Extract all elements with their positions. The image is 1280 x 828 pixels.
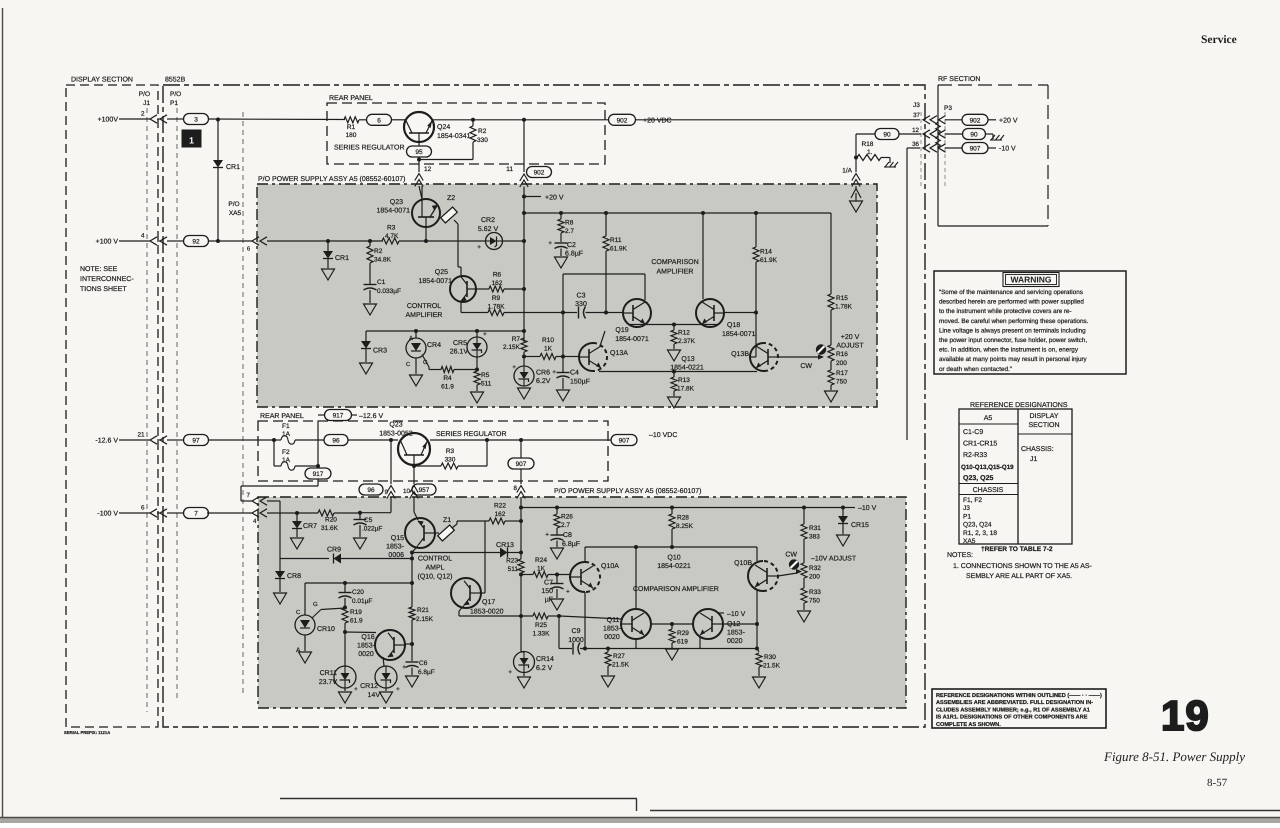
svg-text:Q15: Q15 bbox=[391, 535, 404, 542]
connector oval 907 drop bbox=[508, 440, 534, 484]
svg-text:1.33K: 1.33K bbox=[533, 631, 551, 638]
svg-text:P/O: P/O bbox=[170, 91, 181, 98]
svg-text:CR1: CR1 bbox=[335, 255, 349, 262]
svg-text:902: 902 bbox=[970, 117, 981, 124]
pin 4 chevrons bbox=[252, 509, 297, 525]
main 8552B box bbox=[163, 77, 925, 728]
series regulator label lower bbox=[436, 431, 507, 438]
svg-text:C1-C9: C1-C9 bbox=[963, 429, 983, 436]
wire emitter row Q19 Q18 bbox=[630, 324, 717, 326]
transistor Q24 bbox=[404, 112, 471, 142]
svg-text:0.01µF: 0.01µF bbox=[352, 598, 372, 605]
diode CR1 A5 bbox=[322, 241, 350, 280]
junction R30 top bbox=[755, 647, 759, 651]
svg-text:–12.6 V: –12.6 V bbox=[359, 413, 383, 420]
svg-text:96: 96 bbox=[332, 438, 340, 445]
P3 pin squiggle 2 bbox=[936, 136, 941, 147]
resistor R3 330 chassis bbox=[414, 440, 487, 469]
svg-text:R4: R4 bbox=[443, 375, 452, 382]
svg-text:-10 V: -10 V bbox=[999, 146, 1016, 153]
svg-text:902: 902 bbox=[534, 170, 545, 177]
svg-text:C3: C3 bbox=[577, 293, 586, 300]
transistor Q19 bbox=[615, 299, 651, 343]
svg-text:162: 162 bbox=[495, 511, 506, 518]
svg-text:Q10A: Q10A bbox=[601, 563, 619, 570]
rear panel box lower bbox=[258, 413, 608, 481]
svg-text:R22: R22 bbox=[494, 503, 506, 510]
junction R2 top bbox=[471, 118, 475, 122]
resistor R10 1K bbox=[524, 337, 563, 360]
svg-text:R13: R13 bbox=[678, 377, 690, 384]
wire Q16 base bbox=[345, 631, 376, 634]
svg-text:SECTION: SECTION bbox=[1028, 422, 1059, 429]
transistor Q25 bbox=[419, 267, 476, 302]
junction Q18 collector rail bbox=[701, 211, 705, 215]
svg-text:11: 11 bbox=[506, 166, 513, 173]
transistor Q23 A5 bbox=[377, 186, 440, 227]
connector oval 902 rf bbox=[962, 114, 988, 125]
pin 9 connector bbox=[359, 484, 395, 513]
svg-text:Q11: Q11 bbox=[607, 617, 620, 624]
svg-text:31.6K: 31.6K bbox=[321, 525, 339, 532]
junction R18 bbox=[854, 156, 858, 160]
svg-text:P/O POWER SUPPLY ASSY A5 (0855: P/O POWER SUPPLY ASSY A5 (08552-60107) bbox=[258, 175, 405, 183]
svg-text:CR10: CR10 bbox=[317, 626, 335, 633]
svg-text:CR11: CR11 bbox=[320, 670, 337, 677]
junction R25 right bbox=[557, 614, 561, 618]
svg-text:180: 180 bbox=[346, 132, 357, 139]
svg-text:R10: R10 bbox=[542, 337, 554, 344]
foldout tab 19 bbox=[1161, 692, 1210, 739]
abbreviation note box bbox=[932, 689, 1106, 728]
node +20 VDC label bbox=[643, 118, 672, 125]
svg-text:12: 12 bbox=[912, 127, 919, 134]
control amplifier label upper bbox=[406, 303, 443, 319]
svg-text:8-57: 8-57 bbox=[1207, 777, 1228, 789]
svg-text:6: 6 bbox=[377, 117, 381, 124]
svg-text:2.7: 2.7 bbox=[565, 228, 574, 235]
svg-text:Q10B: Q10B bbox=[734, 560, 752, 567]
svg-text:907: 907 bbox=[516, 461, 527, 468]
svg-text:SEMBLY ARE ALL PART OF XA5.: SEMBLY ARE ALL PART OF XA5. bbox=[966, 573, 1072, 580]
resistor R11 61.9K bbox=[603, 213, 628, 313]
wire Z1 to R22 bbox=[435, 521, 489, 533]
svg-text:R2-R33: R2-R33 bbox=[963, 452, 987, 459]
wire CR2 to +20V vertical bbox=[503, 240, 525, 242]
svg-text:0020: 0020 bbox=[358, 651, 374, 658]
junction R26 top bbox=[555, 506, 559, 510]
serial prefix note bbox=[64, 730, 110, 735]
resistor R12 2.37K bbox=[668, 325, 696, 362]
svg-text:957: 957 bbox=[419, 487, 430, 494]
svg-text:CR1-CR15: CR1-CR15 bbox=[963, 441, 997, 448]
wire 917 riser bbox=[318, 415, 325, 466]
junction C20 top bbox=[343, 581, 347, 585]
svg-text:1853-0052: 1853-0052 bbox=[379, 431, 413, 438]
svg-text:CW: CW bbox=[785, 552, 797, 559]
svg-text:R28: R28 bbox=[677, 515, 689, 522]
svg-text:4: 4 bbox=[253, 518, 257, 525]
svg-text:J1: J1 bbox=[143, 100, 150, 107]
svg-text:330: 330 bbox=[445, 457, 456, 464]
svg-text:0.033µF: 0.033µF bbox=[377, 288, 401, 295]
svg-text:902: 902 bbox=[617, 117, 628, 124]
svg-text:17.8K: 17.8K bbox=[677, 386, 695, 393]
wire C9 branch bbox=[558, 616, 560, 649]
svg-text:0020: 0020 bbox=[727, 638, 743, 645]
figure caption bbox=[1103, 749, 1245, 764]
svg-text:P/O: P/O bbox=[228, 201, 239, 208]
svg-text:+: + bbox=[508, 669, 512, 676]
svg-text:REAR PANEL: REAR PANEL bbox=[260, 413, 304, 420]
wire -10VDC riser bbox=[907, 148, 920, 440]
resistor R33 750 bbox=[798, 588, 822, 622]
svg-text:14V: 14V bbox=[368, 692, 381, 699]
connector oval 90 rf bbox=[963, 129, 986, 140]
node +100V row2 label and pins bbox=[96, 233, 209, 247]
svg-text:REAR PANEL: REAR PANEL bbox=[329, 95, 373, 102]
junction -10V rail pin8 bbox=[519, 506, 523, 510]
svg-text:R1: R1 bbox=[347, 124, 356, 131]
zener CR12 bbox=[360, 657, 400, 703]
svg-text:CHASSIS: CHASSIS bbox=[973, 487, 1004, 494]
connector oval 907 rf bbox=[962, 143, 988, 154]
resistor R18 bbox=[857, 141, 890, 163]
wire pin9 drop bbox=[390, 440, 392, 484]
wire -100V row bbox=[207, 512, 252, 514]
svg-text:750: 750 bbox=[809, 598, 820, 605]
connector P1 dashed line bbox=[170, 91, 181, 700]
node +20V tag bbox=[522, 195, 564, 202]
svg-text:to the instrument while protec: to the instrument while protective cover… bbox=[939, 308, 1072, 315]
svg-text:ADJUST: ADJUST bbox=[836, 343, 864, 350]
svg-text:Z2: Z2 bbox=[447, 195, 455, 202]
diode CR15 bbox=[837, 508, 870, 547]
svg-text:C6: C6 bbox=[419, 660, 428, 667]
svg-text:P/O POWER SUPPLY ASSY A5 (0855: P/O POWER SUPPLY ASSY A5 (08552-60107) bbox=[554, 487, 701, 495]
svg-text:R16: R16 bbox=[836, 351, 848, 358]
wire oval90 to R18 bbox=[856, 134, 875, 158]
resistor R20 31.6K bbox=[297, 510, 360, 532]
svg-text:Q16: Q16 bbox=[361, 634, 374, 641]
wire +20V vertical upper bbox=[523, 196, 525, 342]
wire R23 to CR14 bbox=[520, 616, 522, 652]
fuse pin 1/A bbox=[842, 158, 860, 190]
wire -12.6V row bbox=[209, 439, 275, 441]
svg-text:23.7V: 23.7V bbox=[319, 679, 338, 686]
junction R28 bottom bbox=[670, 545, 674, 549]
junction Q10A emitter row bbox=[583, 647, 587, 651]
power supply assy A5 upper box bbox=[257, 175, 877, 407]
wire F1 to oval96 bbox=[295, 439, 324, 441]
svg-text:200: 200 bbox=[836, 360, 847, 367]
svg-text:REFERENCE DESIGNATIONS: REFERENCE DESIGNATIONS bbox=[970, 402, 1068, 409]
connector J1 dashed line bbox=[139, 91, 151, 712]
wire oval96 to Q23 base bbox=[348, 439, 398, 441]
page bottom border bbox=[0, 817, 1280, 819]
diode CR8 bbox=[274, 559, 302, 605]
svg-text:97: 97 bbox=[192, 438, 200, 445]
svg-text:CR13: CR13 bbox=[496, 542, 514, 549]
wire Q12 emitter bbox=[636, 637, 700, 649]
svg-text:61.9K: 61.9K bbox=[610, 246, 628, 253]
junction Q12 base wiper bbox=[755, 622, 759, 626]
junction F1 F2 bbox=[272, 438, 276, 442]
resistor R1 bbox=[344, 117, 367, 139]
svg-text:CONTROL: CONTROL bbox=[407, 303, 441, 310]
wire 917 to pin7 bbox=[241, 479, 318, 501]
svg-text:Q19: Q19 bbox=[615, 327, 628, 334]
svg-text:F2: F2 bbox=[282, 449, 290, 456]
wire F2 branch bbox=[273, 440, 275, 466]
svg-text:COMPARISON AMPLIFIER: COMPARISON AMPLIFIER bbox=[633, 586, 719, 593]
svg-text:CONTROL: CONTROL bbox=[418, 556, 452, 563]
resistor R2 34.8K bbox=[367, 241, 392, 284]
resistor R26 2.7 bbox=[554, 508, 573, 536]
wire F2 to 917 bbox=[295, 464, 320, 468]
junction R7 bottom bbox=[522, 355, 526, 367]
zener CR5 bbox=[450, 331, 487, 370]
svg-text:1853-: 1853- bbox=[357, 643, 376, 650]
junction R22 right bbox=[519, 519, 523, 523]
resistor R13 17.8K bbox=[668, 372, 695, 409]
svg-text:.022µF: .022µF bbox=[362, 526, 382, 533]
svg-text:available at many points may r: available at many points may result in p… bbox=[939, 356, 1088, 363]
wire Q17 collector riser bbox=[481, 521, 485, 593]
junction R5 top bbox=[475, 368, 479, 372]
svg-text:R7: R7 bbox=[512, 336, 521, 343]
svg-text:330: 330 bbox=[477, 137, 488, 144]
svg-text:(Q10, Q12): (Q10, Q12) bbox=[417, 573, 452, 581]
transistor Q12 bbox=[693, 609, 746, 645]
wire Q15 emitter drop bbox=[411, 559, 413, 584]
junction R6 right bbox=[522, 287, 526, 291]
node -10 VDC label bbox=[649, 432, 677, 439]
resistor R2 rear panel bbox=[419, 120, 488, 160]
pin 11 chevrons bbox=[520, 174, 528, 196]
svg-text:Q10: Q10 bbox=[667, 555, 680, 562]
wire pin36 to oval907 bbox=[945, 147, 963, 149]
svg-text:95: 95 bbox=[415, 149, 423, 156]
header Service bbox=[1201, 34, 1237, 46]
resistor R7 2.15K bbox=[503, 336, 527, 357]
svg-text:–10 V: –10 V bbox=[727, 611, 746, 618]
svg-text:R8: R8 bbox=[565, 220, 574, 227]
svg-text:+20 VDC: +20 VDC bbox=[643, 118, 672, 125]
wire R14 to Q13B base bbox=[750, 313, 756, 358]
node -10V rf bbox=[988, 146, 1016, 153]
svg-text:-12.6 V: -12.6 V bbox=[95, 438, 118, 445]
wire Q10B base to R32 bbox=[778, 569, 802, 576]
resistor R6 162 bbox=[476, 272, 524, 293]
resistor R15 1.78K bbox=[828, 213, 853, 345]
fuse F2 bbox=[274, 449, 295, 470]
transistor Q10 label bbox=[657, 555, 691, 571]
svg-text:+: + bbox=[483, 331, 487, 338]
wire Q11 emitter bbox=[635, 639, 637, 649]
svg-text:REFERENCE DESIGNATIONS WITHIN: REFERENCE DESIGNATIONS WITHIN OUTLINED (… bbox=[936, 692, 1102, 699]
diode CR9 bbox=[280, 547, 412, 564]
wire Q18 base bbox=[724, 312, 756, 314]
transistor Q13B bbox=[731, 343, 778, 371]
svg-text:Q24: Q24 bbox=[437, 124, 450, 131]
svg-text:G: G bbox=[313, 601, 318, 608]
svg-text:R25: R25 bbox=[535, 622, 547, 629]
capacitor C6 bbox=[402, 644, 435, 687]
wire -10V rail lower bbox=[521, 507, 843, 509]
svg-text:R33: R33 bbox=[809, 589, 821, 596]
svg-text:8552B: 8552B bbox=[165, 77, 186, 84]
transistor Q16 bbox=[357, 630, 405, 660]
resistor R24 1K bbox=[521, 557, 570, 578]
junction 95 to pin12 bbox=[417, 157, 421, 172]
svg-text:XA5: XA5 bbox=[229, 210, 242, 217]
svg-text:R9: R9 bbox=[492, 295, 501, 302]
svg-text:+100 V: +100 V bbox=[96, 239, 119, 246]
svg-text:J3: J3 bbox=[963, 505, 970, 512]
svg-text:CW: CW bbox=[800, 363, 812, 370]
junction R2 34.8K top bbox=[368, 239, 372, 243]
svg-text:Q25: Q25 bbox=[435, 269, 448, 276]
ground symbol below 1/A bbox=[850, 201, 863, 212]
svg-text:19: 19 bbox=[1161, 692, 1210, 739]
svg-text:5.62 V: 5.62 V bbox=[478, 226, 499, 233]
svg-text:1854-0071: 1854-0071 bbox=[722, 331, 756, 338]
junction CR13 right bbox=[519, 551, 523, 555]
svg-text:Q13A: Q13A bbox=[610, 350, 628, 357]
svg-text:F1: F1 bbox=[282, 423, 290, 430]
wire +100V row2 bbox=[209, 241, 253, 253]
pin 8 label bbox=[514, 485, 518, 492]
resistor R4 61.9 bbox=[422, 355, 477, 391]
svg-text:IS A1R1. DESIGNATIONS OF O: IS A1R1. DESIGNATIONS OF OTHER COMPONENT… bbox=[936, 715, 1088, 721]
svg-text:6.8µF: 6.8µF bbox=[418, 669, 435, 676]
transistor Q15 bbox=[386, 518, 435, 559]
capacitor C3 bbox=[563, 293, 622, 319]
junction Q18 base R14 bbox=[754, 311, 758, 315]
transistor Q17 bbox=[451, 578, 504, 616]
capacitor C5 bbox=[354, 513, 383, 549]
capacitor C4 bbox=[552, 369, 590, 401]
svg-text:+20 V: +20 V bbox=[841, 334, 860, 341]
junction rail pin11 bbox=[522, 211, 526, 215]
resistor R22 162 bbox=[489, 503, 521, 525]
wire Q19 emitter bbox=[644, 323, 646, 326]
svg-text:R3: R3 bbox=[387, 225, 396, 232]
svg-text:P1: P1 bbox=[170, 100, 178, 107]
resistor R3 4.7K bbox=[382, 225, 426, 245]
svg-text:1. CONNECTIONS SHOWN TO THE: 1. CONNECTIONS SHOWN TO THE A5 AS- bbox=[953, 563, 1093, 570]
svg-text:CR7: CR7 bbox=[303, 523, 317, 530]
svg-text:AMPLIFIER: AMPLIFIER bbox=[406, 312, 443, 319]
resistor R9 1.78K bbox=[461, 295, 563, 316]
rf section box bbox=[938, 76, 1048, 226]
wire +100V row1 bbox=[209, 118, 346, 121]
wire Q10B collector bbox=[756, 547, 758, 561]
svg-text:61.9: 61.9 bbox=[350, 618, 363, 625]
pin 37 bbox=[913, 112, 945, 124]
black index square 1 bbox=[182, 130, 201, 147]
svg-text:NOTE: SEE: NOTE: SEE bbox=[80, 266, 118, 273]
wire row2 to CR2 bbox=[426, 240, 486, 242]
wire Q24 collector rail +20VDC bbox=[433, 119, 633, 121]
svg-text:moved. Be careful when perfor: moved. Be careful when performing these … bbox=[939, 318, 1089, 325]
svg-text:R2: R2 bbox=[374, 248, 383, 255]
svg-text:CHASSIS:: CHASSIS: bbox=[1021, 446, 1054, 453]
svg-text:CR6: CR6 bbox=[536, 370, 550, 377]
svg-text:XA5: XA5 bbox=[963, 538, 976, 545]
wire +20VDC down to pin11 bbox=[523, 120, 525, 172]
svg-text:Service: Service bbox=[1201, 34, 1237, 46]
svg-text:C: C bbox=[406, 361, 411, 368]
wire Q23 base down bbox=[425, 227, 427, 241]
ground entry arrow into A5 bbox=[851, 189, 861, 202]
capacitor C7 bbox=[541, 575, 570, 611]
junction R25 row bbox=[519, 614, 523, 618]
connector J3 label bbox=[913, 102, 920, 109]
svg-text:SERIES REGULATOR: SERIES REGULATOR bbox=[334, 145, 405, 152]
zener CR6 bbox=[512, 364, 551, 399]
svg-text:1854-0341: 1854-0341 bbox=[437, 133, 471, 140]
svg-text:Q13B: Q13B bbox=[731, 351, 749, 358]
resistor R14 61.9K bbox=[753, 213, 778, 313]
svg-text:162: 162 bbox=[492, 280, 503, 287]
svg-text:619: 619 bbox=[677, 639, 688, 646]
svg-text:+: + bbox=[552, 369, 556, 376]
svg-text:8.25K: 8.25K bbox=[676, 523, 694, 530]
connector P3 dashed bbox=[944, 112, 946, 188]
svg-text:INTERCONNEC-: INTERCONNEC- bbox=[80, 276, 134, 283]
svg-text:CR12: CR12 bbox=[360, 683, 378, 690]
resistor R19 61.9 bbox=[342, 608, 363, 632]
wire R23 lower drop bbox=[520, 575, 522, 617]
junction Q23 base bbox=[424, 239, 428, 243]
svg-text:C1: C1 bbox=[377, 279, 386, 286]
wire C5 to pin9 bbox=[360, 512, 391, 514]
pin 10 connector bbox=[403, 484, 436, 520]
diode CR3 bbox=[360, 331, 388, 374]
junction +20VDC to pin 11 bbox=[522, 118, 526, 122]
svg-text:ASSEMBLIES ARE ABBREVIATED. F: ASSEMBLIES ARE ABBREVIATED. FULL DESIGNA… bbox=[936, 700, 1093, 706]
svg-text:+: + bbox=[396, 686, 400, 693]
resistor R8 2.7 bbox=[558, 213, 574, 242]
svg-text:etc. In addition, when the in: etc. In addition, when the instrument is… bbox=[939, 347, 1079, 354]
svg-text:R15: R15 bbox=[836, 295, 848, 302]
svg-text:6.8µF: 6.8µF bbox=[562, 541, 580, 548]
chassis ground rf bbox=[986, 134, 1005, 140]
comparison amplifier label upper bbox=[651, 259, 698, 276]
svg-text:Q10-Q13,Q15-Q19: Q10-Q13,Q15-Q19 bbox=[961, 464, 1014, 471]
svg-text:CR14: CR14 bbox=[536, 656, 554, 663]
svg-text:1: 1 bbox=[189, 136, 194, 146]
power supply assy A5 lower box bbox=[258, 487, 906, 708]
svg-text:1854-0071: 1854-0071 bbox=[615, 336, 649, 343]
svg-text:4.7K: 4.7K bbox=[385, 233, 399, 240]
svg-text:C2: C2 bbox=[567, 242, 576, 249]
wire CR3 CR4 CR5 rail bbox=[366, 329, 526, 333]
svg-text:1/A: 1/A bbox=[842, 168, 852, 175]
resistor R23 511 bbox=[506, 508, 524, 574]
pin 8 chevrons bbox=[517, 486, 525, 508]
zener CR2 bbox=[477, 217, 502, 251]
svg-text:Q23: Q23 bbox=[390, 199, 403, 206]
wire Q13A collector bbox=[600, 331, 605, 346]
svg-text:36: 36 bbox=[912, 141, 919, 148]
wire Q11 Q12 row bbox=[651, 623, 693, 625]
resistor R21 2.15K bbox=[409, 583, 434, 644]
svg-text:C8: C8 bbox=[563, 532, 572, 539]
P3 pin squiggle 1 bbox=[936, 122, 941, 133]
